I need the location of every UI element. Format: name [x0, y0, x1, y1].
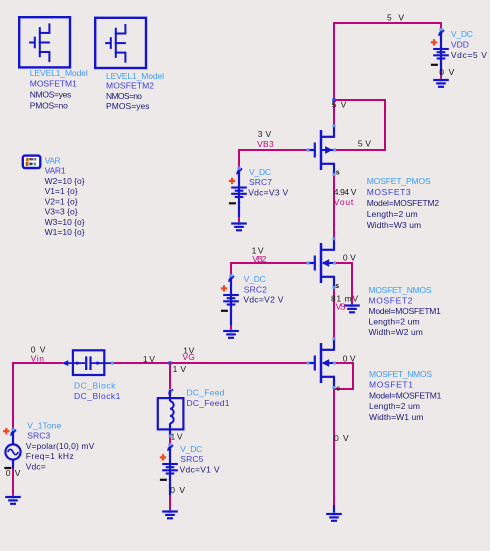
wire Vout net: M3 source down to M2 drain: [333, 174, 335, 239]
label MOSFET1: [369, 380, 413, 390]
ground below SRC5: [162, 510, 178, 518]
wire SRC5 bottom to ground: [169, 494, 171, 511]
wire Vin net: left corner down to V_1Tone, horizontal to DC_Block: [13, 363, 63, 429]
ground below SRC2: [223, 330, 239, 338]
label V_DC (SRC5): [180, 444, 202, 454]
svg-text:SRC5: SRC5: [180, 454, 203, 464]
param Length=2 um (M1): [369, 401, 420, 411]
wire M2 bulk to ground: [335, 263, 353, 304]
annotation 1 V (below VG junction): [173, 364, 187, 374]
wire M1 bulk-source loop: [334, 363, 353, 389]
source V_1Tone SRC3: [3, 428, 21, 469]
param NMOS=yes (box1): [30, 90, 72, 100]
annotation 0 V (SRC5 gnd): [170, 485, 185, 495]
svg-text:MOSFET_PMOS: MOSFET_PMOS: [367, 176, 431, 186]
svg-text:V_DC: V_DC: [244, 274, 266, 284]
label MOSFET3: [367, 187, 411, 197]
model block LEVEL1_Model MOSFETM1: [19, 17, 70, 67]
label LEVEL1_Model (box1): [30, 68, 88, 78]
wire VG drop to DC_Feed: [169, 363, 171, 390]
annotation 3 V (VB3): [258, 129, 272, 139]
label MOSFET_PMOS: [367, 176, 431, 186]
svg-text:Length=2 um: Length=2 um: [367, 209, 418, 219]
blue stub output ground: [333, 505, 335, 513]
svg-text:DC_Feed1: DC_Feed1: [187, 398, 230, 408]
label MOSFETM1 (box1): [30, 79, 77, 89]
annotation 0 V (Vin): [31, 344, 46, 354]
bulk label s of MOSFET3: [336, 170, 340, 177]
param Width=W2 um: [369, 327, 423, 337]
svg-text:0 V: 0 V: [343, 252, 356, 262]
wire VG net: DC_Block right to M1 gate: [113, 362, 308, 364]
svg-text:W3=10 {o}: W3=10 {o}: [45, 217, 85, 227]
param Width=W1 um: [369, 412, 423, 422]
transistor MOSFET2 (NMOS): [307, 237, 337, 289]
svg-text:VB3: VB3: [257, 139, 274, 149]
svg-text:VS: VS: [336, 302, 346, 312]
label DC_Feed: [187, 388, 225, 398]
svg-text:V_DC: V_DC: [180, 444, 202, 454]
svg-text:Vdc=: Vdc=: [26, 461, 46, 471]
label DC_Feed1: [187, 398, 230, 408]
svg-text:DC_Block: DC_Block: [74, 381, 116, 391]
svg-text:4.94 V: 4.94 V: [334, 187, 357, 197]
svg-text:Vin: Vin: [31, 353, 45, 363]
svg-text:Vdc=V1 V: Vdc=V1 V: [180, 465, 220, 475]
svg-text:V_1Tone: V_1Tone: [27, 420, 61, 430]
param V3=3 {o}: [45, 207, 78, 217]
label MOSFET_NMOS (M1): [369, 369, 432, 379]
label V_1Tone: [27, 420, 61, 430]
label DC_Block1: [74, 391, 121, 401]
ground below SRC3: [5, 496, 21, 504]
annotation 1 V (VB2): [252, 246, 264, 256]
svg-text:LEVEL1_Model: LEVEL1_Model: [106, 71, 164, 81]
param Length=2 um (M3): [367, 209, 418, 219]
wire SRC2 battery to ground stub: [230, 324, 232, 331]
label DC_Block: [74, 381, 116, 391]
param W1=10 {o}: [45, 227, 85, 237]
param Vdc=V1 V: [180, 465, 220, 475]
svg-text:0 V: 0 V: [439, 67, 454, 77]
svg-text:1 V: 1 V: [143, 354, 155, 364]
svg-text:5 V: 5 V: [358, 139, 371, 149]
wire output node M1 source to ground: [333, 389, 335, 507]
svg-text:5 V: 5 V: [332, 100, 347, 110]
svg-text:V=polar(10,0) mV: V=polar(10,0) mV: [26, 441, 95, 451]
svg-text:s: s: [335, 283, 339, 290]
param Width=W3 um: [367, 220, 421, 230]
param Vdc= (SRC3): [26, 461, 46, 471]
svg-text:SRC7: SRC7: [249, 177, 272, 187]
svg-text:1 V: 1 V: [173, 364, 187, 374]
svg-text:0 V: 0 V: [6, 468, 21, 478]
svg-text:PMOS=no: PMOS=no: [30, 100, 68, 110]
VAR equation icon: [23, 156, 41, 168]
param Model=MOSFETM2: [367, 198, 440, 208]
svg-text:MOSFET3: MOSFET3: [367, 187, 411, 197]
svg-text:Freq=1 kHz: Freq=1 kHz: [26, 451, 74, 461]
svg-text:Vout: Vout: [334, 197, 354, 207]
node junction VG: [168, 361, 171, 364]
label MOSFETM2 (box2): [106, 81, 154, 91]
annotation 0 V (VDD gnd): [439, 67, 454, 77]
label V_DC (SRC7): [249, 167, 271, 177]
svg-text:3 V: 3 V: [258, 129, 272, 139]
ground at output bottom: [326, 513, 342, 521]
annotation 1 V (DC_Feed bottom): [171, 431, 183, 441]
param NMOS=no (box2): [106, 91, 142, 101]
node label VS: [336, 302, 346, 312]
annotation 81 mV (VS): [331, 294, 358, 304]
annotation 0 V (M2 bulk): [343, 252, 356, 262]
source SRC5 battery: [160, 443, 178, 480]
param PMOS=no (box1): [30, 100, 68, 110]
label SRC3: [27, 431, 50, 441]
inductor DC_Feed DC_Feed1: [158, 389, 184, 438]
param Length=2 um (M2): [369, 317, 420, 327]
label SRC7: [249, 177, 272, 187]
svg-text:Width=W3 um: Width=W3 um: [367, 220, 421, 230]
node label Vin: [31, 353, 45, 363]
ground below SRC7: [231, 222, 247, 230]
param V1=1 {o}: [45, 186, 78, 196]
annotation 5 V (top rail): [387, 12, 404, 22]
svg-text:s: s: [336, 170, 340, 177]
bulk label s of MOSFET2: [335, 283, 339, 290]
param Model=MOSFETM1 (M2): [369, 306, 442, 316]
svg-text:0 V: 0 V: [334, 433, 349, 443]
wire SRC3 bottom to ground: [12, 468, 14, 496]
node label VG: [182, 352, 195, 362]
param Vdc=V3 V: [248, 188, 288, 198]
label V_DC (VDD): [451, 29, 473, 39]
svg-text:MOSFET_NMOS: MOSFET_NMOS: [369, 369, 432, 379]
wire M3 bulk loop to VDD rail: [334, 100, 385, 150]
label VAR1: [45, 166, 66, 176]
label VDD: [451, 40, 469, 50]
blue leg SRC2 battery to ground: [230, 310, 232, 325]
wire VDD rail: top horizontal + left vertical down to M3 drain: [334, 23, 441, 126]
svg-text:V2=1 {o}: V2=1 {o}: [45, 196, 78, 206]
svg-text:W2=10 {o}: W2=10 {o}: [45, 176, 85, 186]
svg-text:Length=2 um: Length=2 um: [369, 401, 420, 411]
label SRC5: [180, 454, 203, 464]
capacitor DC_Block DC_Block1: [62, 350, 114, 375]
svg-text:Vdc=5 V: Vdc=5 V: [451, 50, 487, 60]
source SRC7 battery: [229, 167, 247, 204]
node label VB2: [252, 254, 266, 264]
annotation 0 V (M1 bulk): [343, 354, 356, 364]
wire VB3 net: SRC7 top to M3 gate: [239, 150, 308, 168]
svg-text:Width=W1 um: Width=W1 um: [369, 412, 423, 422]
svg-text:VB2: VB2: [252, 254, 266, 264]
svg-text:LEVEL1_Model: LEVEL1_Model: [30, 68, 88, 78]
label V_DC (SRC2): [244, 274, 266, 284]
source SRC2 battery: [221, 274, 239, 311]
param W2=10 {o}: [45, 176, 85, 186]
wire VB2 net: SRC2 top to M2 gate: [231, 263, 308, 276]
wire DC_Feed bottom to SRC5: [169, 431, 171, 445]
transistor MOSFET1 (NMOS): [307, 337, 337, 389]
ground below VDD: [433, 79, 449, 87]
svg-text:5 V: 5 V: [387, 12, 404, 22]
svg-text:0 V: 0 V: [343, 354, 356, 364]
svg-text:SRC2: SRC2: [244, 284, 267, 294]
annotation 1 V (above VG): [183, 346, 194, 356]
svg-text:MOSFET1: MOSFET1: [369, 380, 413, 390]
svg-text:V3=3 {o}: V3=3 {o}: [45, 207, 78, 217]
svg-text:MOSFETM1: MOSFETM1: [30, 79, 77, 89]
svg-text:V1=1 {o}: V1=1 {o}: [45, 186, 78, 196]
svg-text:NMOS=yes: NMOS=yes: [30, 90, 72, 100]
svg-text:MOSFET2: MOSFET2: [369, 295, 413, 305]
label LEVEL1_Model (box2): [106, 71, 164, 81]
source VDD battery: [431, 28, 449, 65]
label MOSFET_NMOS (M2): [369, 285, 432, 295]
param Model=MOSFETM1 (M1): [369, 390, 442, 400]
node junction on rail at loop: [332, 98, 335, 101]
svg-text:Model=MOSFETM1: Model=MOSFETM1: [369, 390, 442, 400]
svg-text:VAR: VAR: [45, 155, 61, 165]
blue leg SRC5 battery to ground: [169, 479, 171, 495]
node label VB3: [257, 139, 274, 149]
wire VDD battery to ground stub: [440, 73, 442, 80]
svg-text:Length=2 um: Length=2 um: [369, 317, 420, 327]
svg-text:NMOS=no: NMOS=no: [106, 91, 142, 101]
model block LEVEL1_Model MOSFETM2: [95, 18, 146, 68]
bulk label s of MOSFET1: [336, 385, 340, 392]
svg-text:Model=MOSFETM2: Model=MOSFETM2: [367, 198, 440, 208]
param V2=1 {o}: [45, 196, 78, 206]
annotation 0 V (output node): [334, 433, 349, 443]
svg-text:W1=10 {o}: W1=10 {o}: [45, 227, 85, 237]
annotation 4.94 V (Vout): [334, 187, 357, 197]
svg-text:s: s: [336, 385, 340, 392]
annotation 0 V (SRC3 gnd): [6, 468, 21, 478]
svg-text:VAR1: VAR1: [45, 166, 66, 176]
blue leg VDD battery to ground: [440, 63, 442, 74]
svg-text:Vdc=V3 V: Vdc=V3 V: [248, 188, 288, 198]
blue leg SRC7 battery to ground: [238, 202, 240, 217]
svg-text:V_DC: V_DC: [451, 29, 473, 39]
svg-text:PMOS=yes: PMOS=yes: [106, 101, 150, 111]
ground for M2 bulk (VS): [344, 304, 360, 312]
label VAR: [45, 155, 61, 165]
svg-text:0 V: 0 V: [170, 485, 185, 495]
svg-text:VDD: VDD: [451, 40, 469, 50]
svg-text:1 V: 1 V: [171, 431, 183, 441]
node label Vout: [334, 197, 354, 207]
param W3=10 {o}: [45, 217, 85, 227]
param V=polar(10,0) mV: [26, 441, 95, 451]
param PMOS=yes (box2): [106, 101, 150, 111]
transistor MOSFET3 (PMOS): [307, 124, 337, 176]
svg-text:VG: VG: [182, 352, 195, 362]
annotation 5 V (rail junction): [332, 100, 347, 110]
svg-text:V_DC: V_DC: [249, 167, 271, 177]
param Vdc=V2 V: [243, 295, 283, 305]
annotation 1 V (left of VG): [143, 354, 155, 364]
wire VS net: M2 source down to M1 drain: [333, 289, 335, 339]
wire SRC7 battery to ground stub: [238, 216, 240, 223]
svg-text:Model=MOSFETM1: Model=MOSFETM1: [369, 306, 442, 316]
label SRC2: [244, 284, 267, 294]
annotation 5 V (M3 bulk): [358, 139, 371, 149]
svg-text:SRC3: SRC3: [27, 431, 50, 441]
svg-text:MOSFET_NMOS: MOSFET_NMOS: [369, 285, 432, 295]
param Vdc=5 V (VDD): [451, 50, 487, 60]
svg-text:DC_Feed: DC_Feed: [187, 388, 225, 398]
svg-text:Width=W2 um: Width=W2 um: [369, 327, 423, 337]
svg-text:Vdc=V2 V: Vdc=V2 V: [243, 295, 283, 305]
param Freq=1 kHz: [26, 451, 74, 461]
svg-text:DC_Block1: DC_Block1: [74, 391, 121, 401]
svg-text:MOSFETM2: MOSFETM2: [106, 81, 154, 91]
label MOSFET2: [369, 295, 413, 305]
